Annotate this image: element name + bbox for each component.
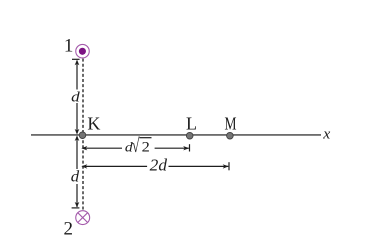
svg-text:2d: 2d [150,156,168,175]
wire 2 (current into page) [76,211,90,225]
dimension 2d (K to M) [81,162,229,170]
svg-text:√: √ [132,135,140,157]
wire x-axis [31,134,321,136]
node L point [186,132,193,139]
node M point [227,132,234,139]
wire 1 (current out of page) [76,44,90,58]
svg-text:1: 1 [64,35,74,56]
svg-text:d: d [71,90,80,106]
node K point [79,132,86,139]
svg-text:d: d [71,169,80,186]
svg-text:L: L [186,113,197,133]
dimension upper d [72,59,80,134]
dimension lower d [72,136,80,208]
svg-text:2: 2 [64,219,74,240]
value label d√2 [125,135,152,157]
wire dashed vertical line through K [82,59,84,211]
svg-text:M: M [225,113,237,133]
svg-text:K: K [87,113,100,133]
dimension d√2 (K to L) [81,144,189,151]
svg-text:2: 2 [142,139,150,155]
svg-text:x: x [322,126,331,142]
